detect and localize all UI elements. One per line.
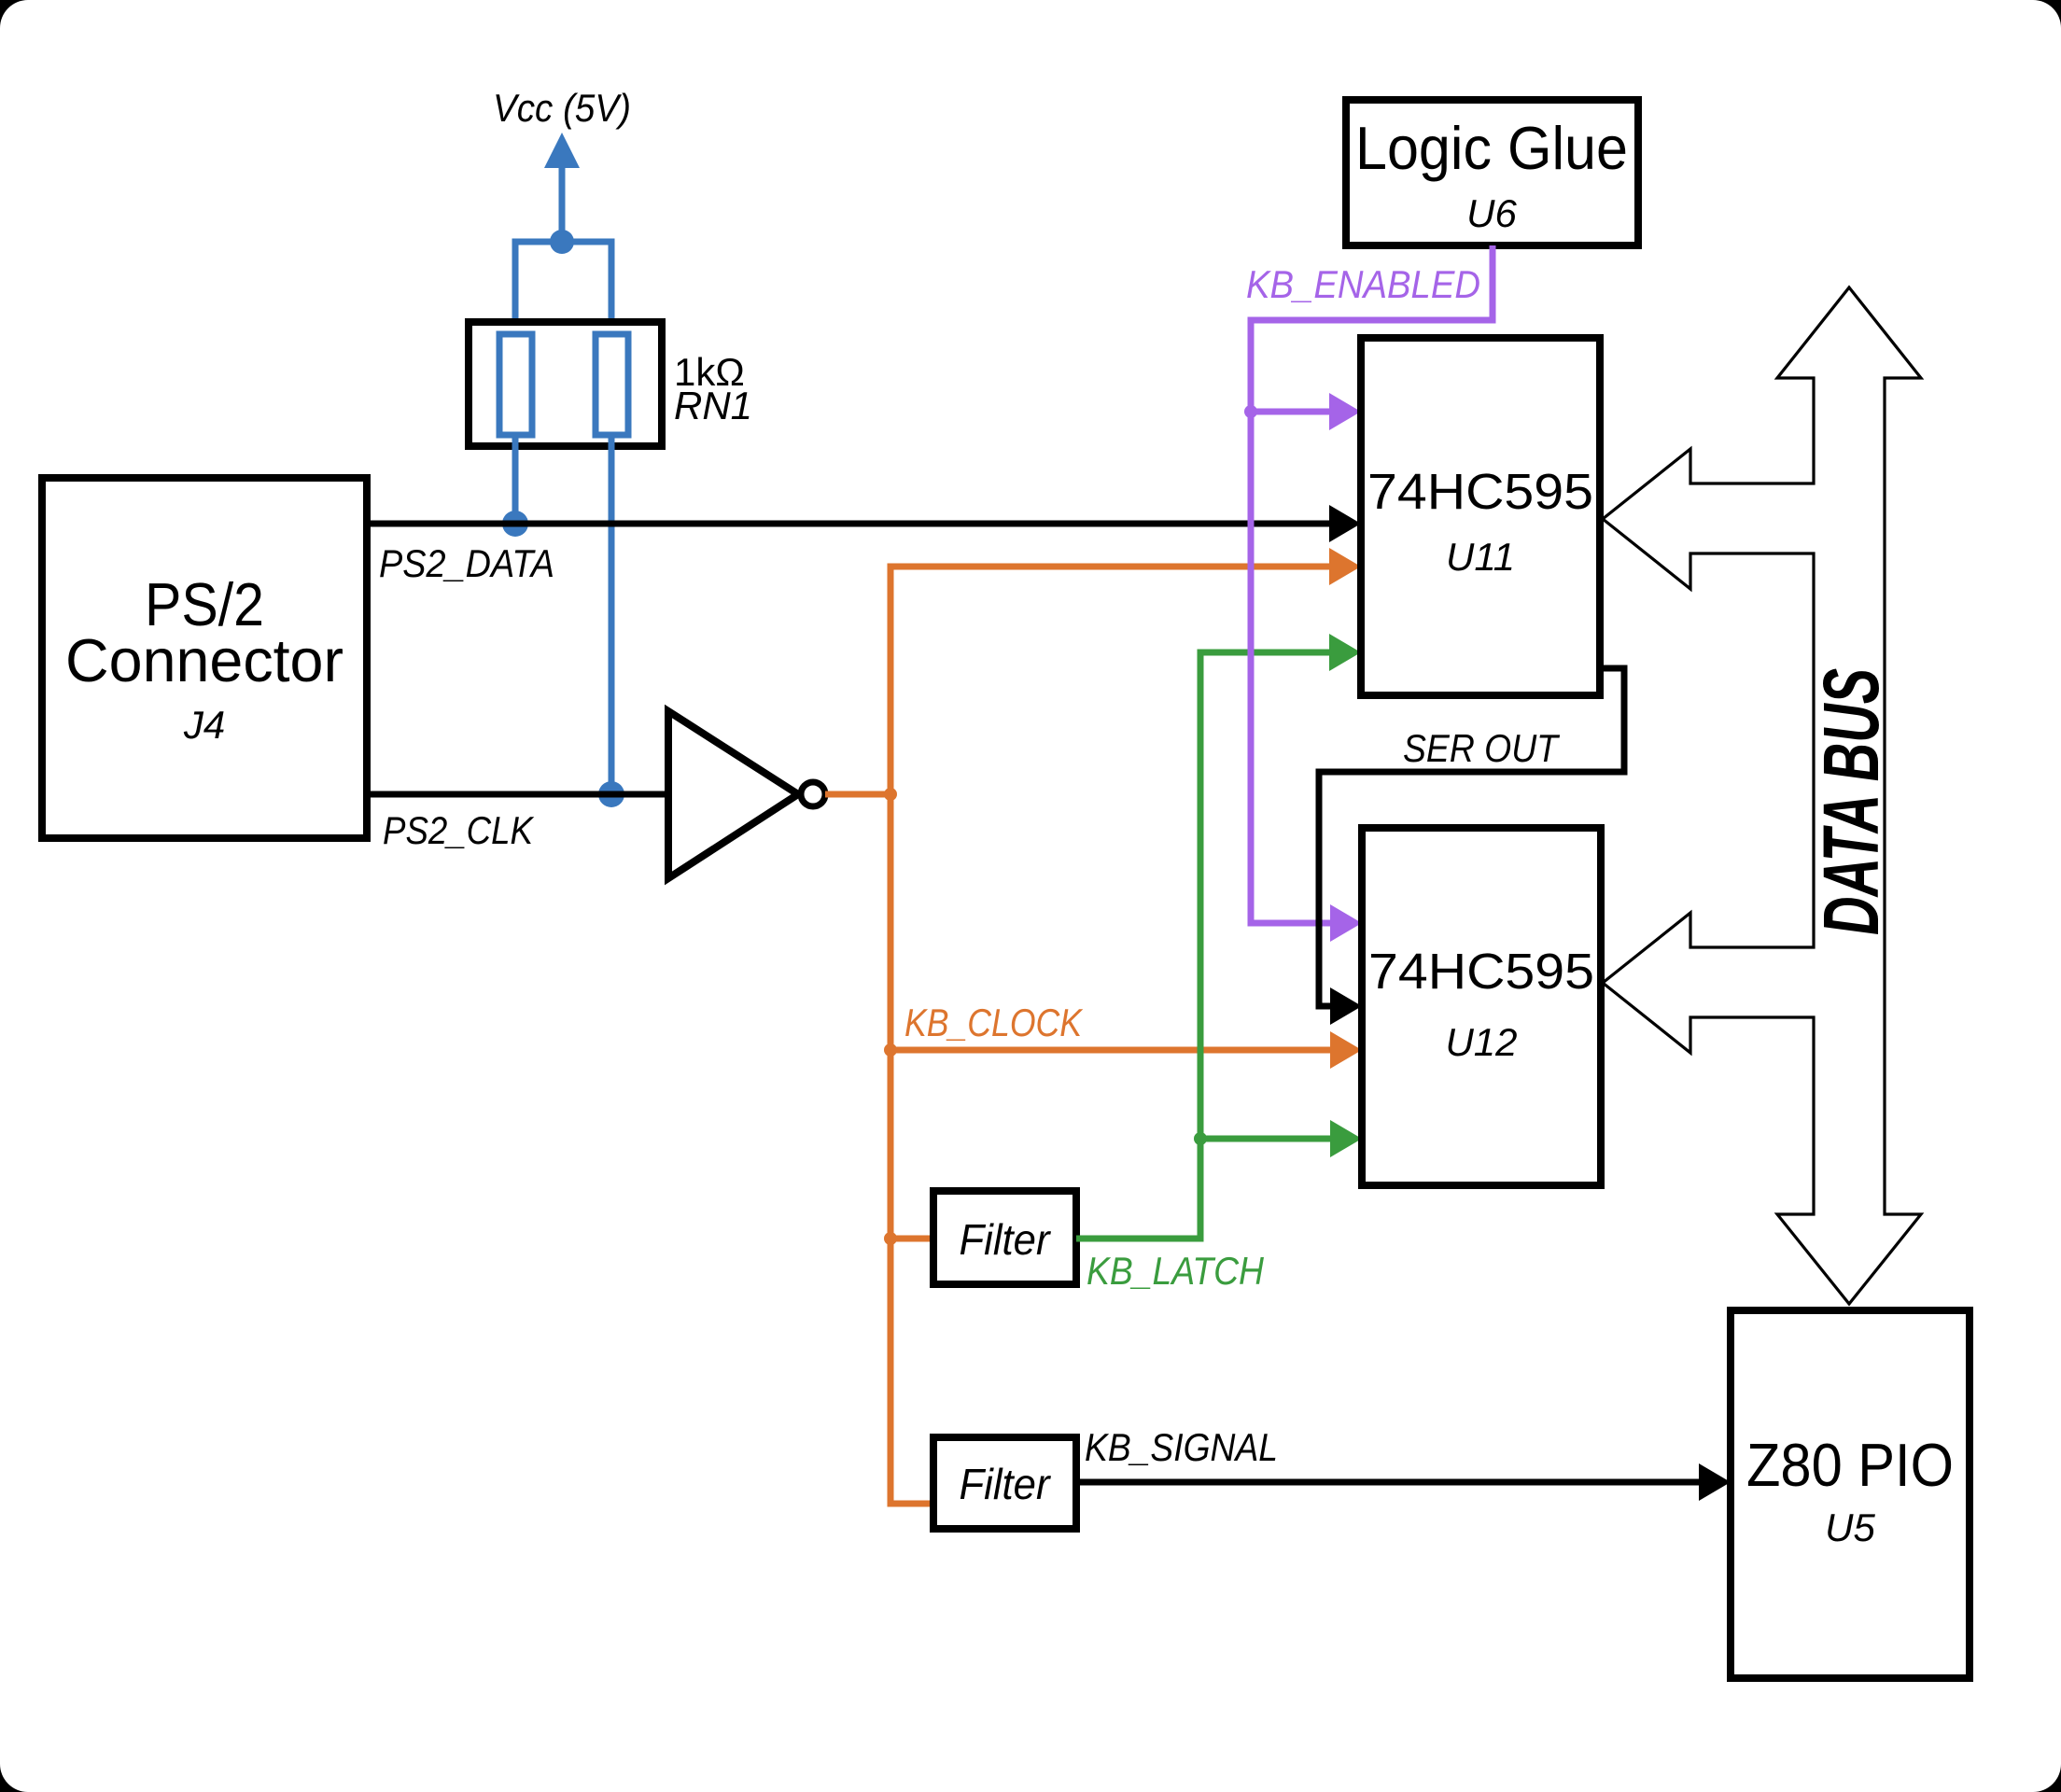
wire: purple branch to U11 bbox=[1251, 393, 1361, 430]
wire SER OUT from U11 to U12 bbox=[1319, 668, 1624, 1006]
wire: KB_SIGNAL from Filter 2 to Z80 PIO bbox=[1076, 1463, 1731, 1501]
node: Vcc junction dot bbox=[550, 230, 574, 254]
wire: purple KB_ENABLED from Logic Glue bbox=[1251, 245, 1493, 923]
arrowhead orange into U11 bbox=[1329, 548, 1361, 585]
wire: green KB_LATCH from Filter 1 bbox=[1076, 652, 1335, 1239]
node: junction dot on PS2_CLK bbox=[598, 781, 624, 807]
svg-text:PS2_DATA: PS2_DATA bbox=[379, 541, 554, 585]
wire: green branch to U12 bbox=[1200, 1120, 1362, 1157]
svg-text:KB_CLOCK: KB_CLOCK bbox=[904, 1001, 1084, 1044]
Filter box 1 bbox=[933, 1191, 1076, 1284]
wire: inverter output to orange bus bbox=[825, 791, 890, 798]
node: orange junction at Filter 1 bbox=[884, 1232, 897, 1245]
node: green junction for U12 branch bbox=[1194, 1132, 1207, 1145]
Vcc supply arrow (blue) bbox=[544, 133, 580, 242]
wire: orange branch KB_CLOCK to U12 bbox=[890, 1031, 1362, 1069]
svg-text:74HC595: 74HC595 bbox=[1367, 464, 1593, 520]
resistor network RN1 box bbox=[469, 322, 662, 446]
wire: orange trunk KB_CLOCK (to U11 and down to filters) bbox=[890, 567, 1335, 1504]
svg-text:Vcc (5V): Vcc (5V) bbox=[493, 86, 631, 130]
svg-text:Filter: Filter bbox=[960, 1215, 1052, 1264]
wire: orange stub into Filter 1 bbox=[890, 1236, 933, 1242]
node: orange junction for U12 branch bbox=[884, 1043, 897, 1057]
svg-text:RN1: RN1 bbox=[674, 384, 752, 427]
svg-text:Filter: Filter bbox=[960, 1460, 1052, 1508]
wire PS2_DATA (black) bbox=[367, 521, 1335, 527]
wire: RN1 left lead to PS2_DATA (blue) bbox=[512, 435, 519, 524]
svg-text:U11: U11 bbox=[1446, 535, 1515, 579]
Z80 PIO U5 box bbox=[1731, 1310, 1970, 1678]
arrowhead purple into U12 bbox=[1330, 904, 1362, 942]
svg-text:Connector: Connector bbox=[65, 626, 343, 694]
svg-text:DATA BUS: DATA BUS bbox=[1807, 668, 1895, 935]
arrowhead SER OUT into U12 bbox=[1330, 987, 1362, 1025]
Filter box 2 bbox=[933, 1437, 1076, 1529]
svg-text:SER OUT: SER OUT bbox=[1403, 726, 1561, 770]
Logic Glue U6 box bbox=[1346, 100, 1638, 245]
svg-text:U6: U6 bbox=[1466, 191, 1517, 235]
svg-text:KB_ENABLED: KB_ENABLED bbox=[1246, 262, 1480, 306]
wire: RN1 top leads (blue) bbox=[515, 242, 611, 336]
svg-text:J4: J4 bbox=[183, 703, 225, 747]
svg-text:KB_LATCH: KB_LATCH bbox=[1087, 1249, 1265, 1293]
node: orange junction at inverter output bbox=[884, 788, 897, 801]
svg-text:Logic Glue: Logic Glue bbox=[1355, 114, 1628, 182]
resistor RN1 element B bbox=[596, 334, 628, 435]
svg-text:PS2_CLK: PS2_CLK bbox=[383, 808, 535, 852]
arrowhead green into U11 bbox=[1329, 634, 1361, 671]
shift register U12 box bbox=[1362, 828, 1601, 1185]
wire PS2_CLK (black) bbox=[367, 791, 668, 798]
inverter gate (NOT) bbox=[668, 711, 825, 878]
svg-text:Z80 PIO: Z80 PIO bbox=[1746, 1431, 1954, 1499]
PS/2 Connector J4 box bbox=[42, 478, 367, 838]
node: purple junction for U11 branch bbox=[1244, 405, 1257, 418]
svg-text:74HC595: 74HC595 bbox=[1368, 944, 1594, 1000]
shift register U11 box bbox=[1361, 338, 1600, 695]
svg-text:U12: U12 bbox=[1445, 1020, 1517, 1064]
resistor RN1 element A bbox=[499, 334, 532, 435]
node: junction dot on PS2_DATA bbox=[502, 511, 528, 537]
arrowhead PS2_DATA into U11 bbox=[1329, 505, 1361, 542]
DATA BUS double arrow with branches to U11 and U12 bbox=[1603, 287, 1921, 1304]
svg-text:U5: U5 bbox=[1825, 1505, 1875, 1549]
svg-text:KB_SIGNAL: KB_SIGNAL bbox=[1085, 1425, 1278, 1469]
wire: RN1 right lead to PS2_CLK (blue) bbox=[609, 435, 615, 794]
